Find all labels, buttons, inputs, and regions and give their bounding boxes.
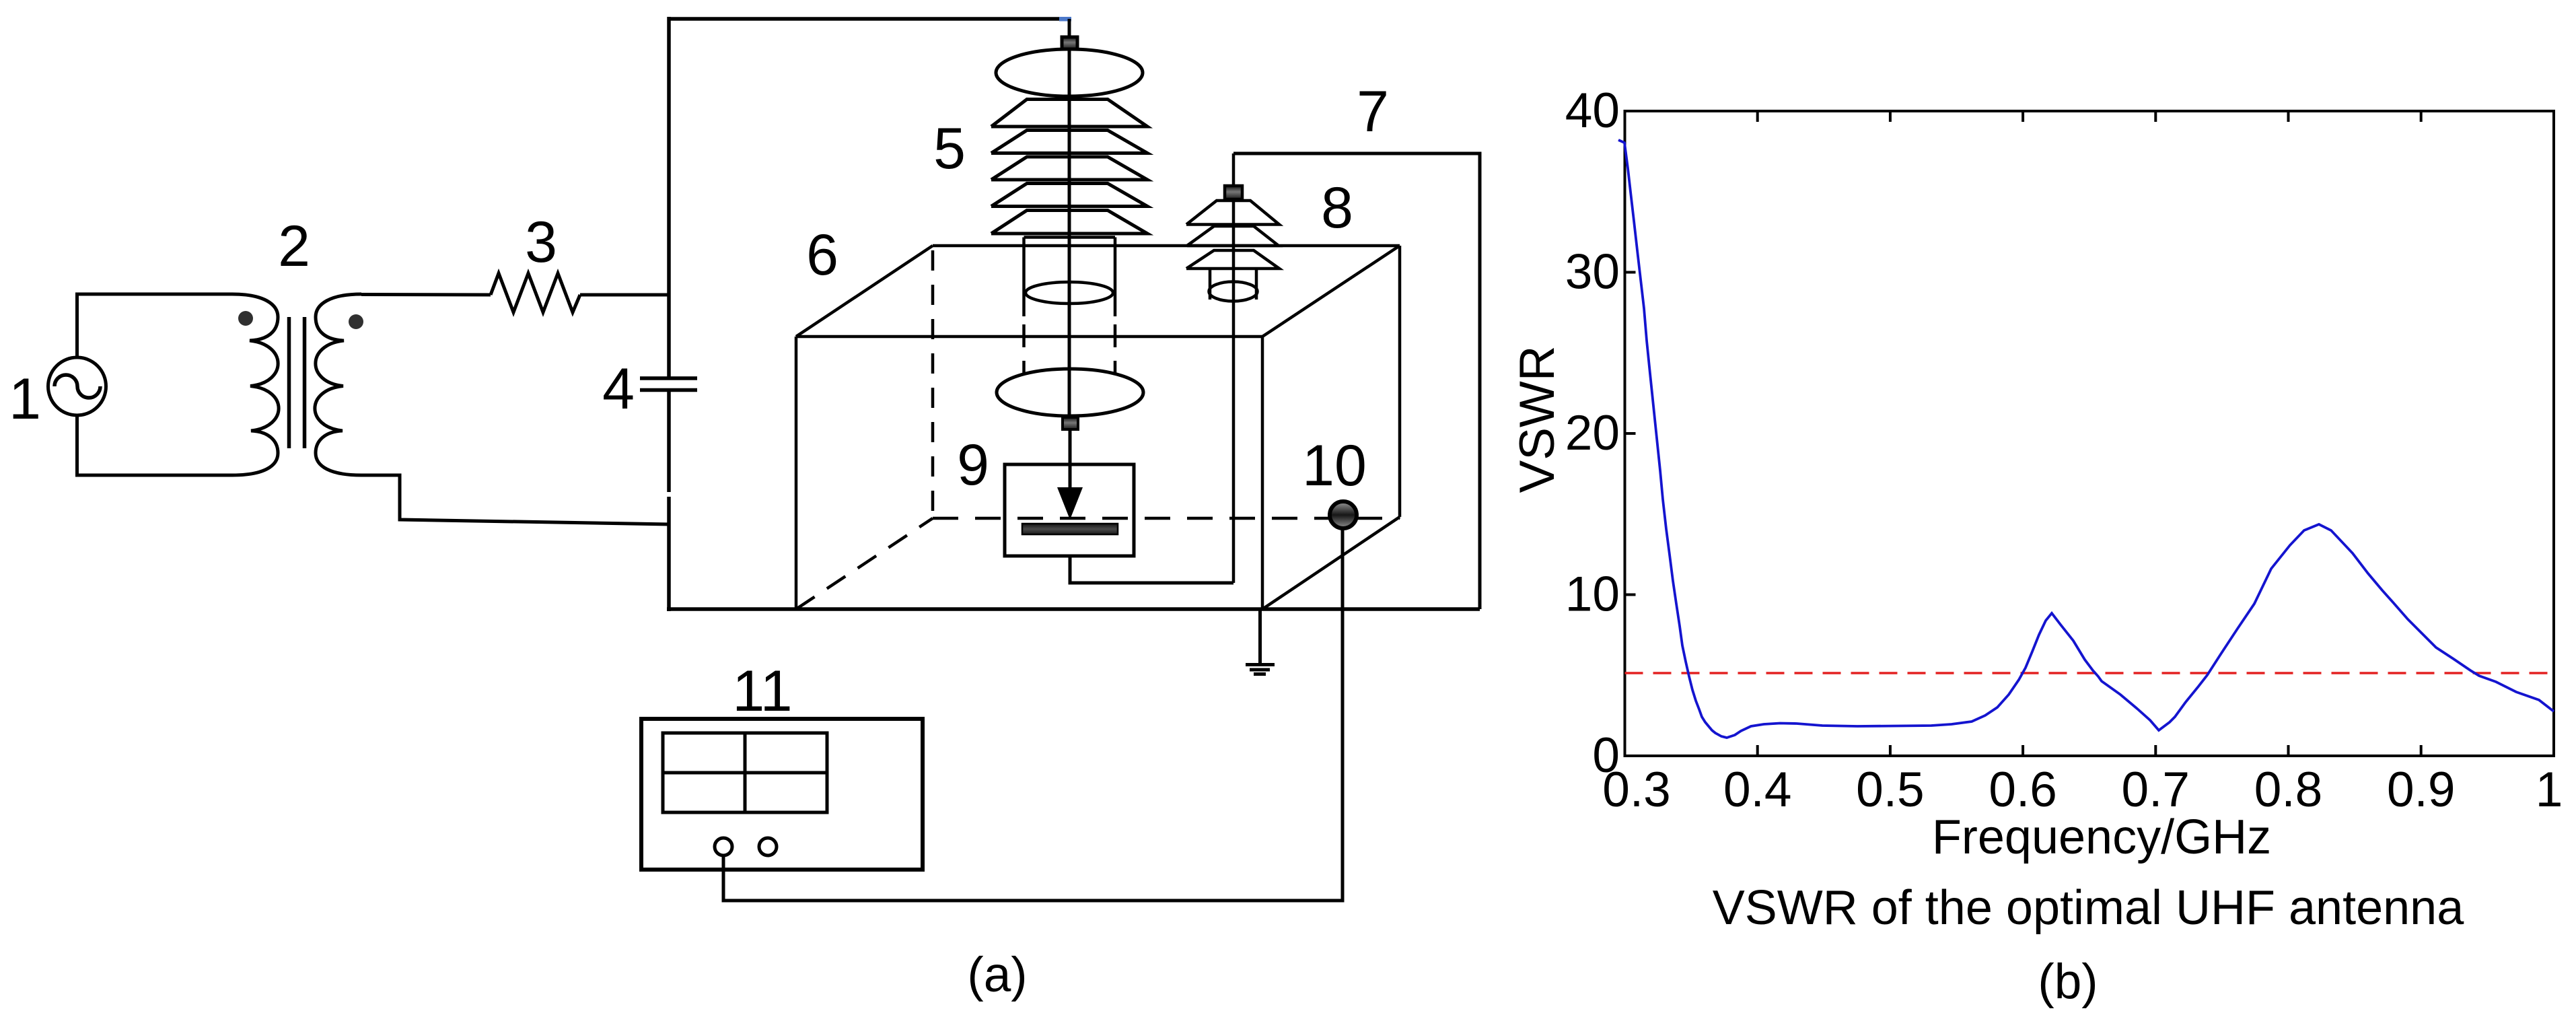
svg-text:0.4: 0.4 xyxy=(1723,763,1791,817)
capacitor 4 xyxy=(640,378,697,390)
wire loop 7 right xyxy=(1478,153,1482,609)
AC source 1 xyxy=(48,357,106,415)
node blue mark xyxy=(1059,17,1071,22)
ground xyxy=(1246,609,1275,674)
transformer T primary winding xyxy=(232,294,279,475)
electrode arrow xyxy=(1069,429,1072,490)
svg-text:4: 4 xyxy=(602,357,635,421)
svg-text:20: 20 xyxy=(1565,406,1620,460)
oscilloscope 11 xyxy=(641,719,923,870)
red threshold dashed line xyxy=(1625,672,2554,674)
svg-text:0.9: 0.9 xyxy=(2387,763,2455,817)
transformer polarity dot right xyxy=(349,314,363,329)
insulator 8 terminal xyxy=(1225,186,1242,199)
svg-text:7: 7 xyxy=(1357,79,1389,144)
svg-text:0.7: 0.7 xyxy=(2122,763,2190,817)
VSWR curve xyxy=(1618,140,2554,738)
svg-text:0.6: 0.6 xyxy=(1989,763,2056,817)
wire secondary bottom xyxy=(361,475,670,524)
transformer polarity dot left xyxy=(238,311,253,326)
svg-text:10: 10 xyxy=(1565,567,1620,622)
transformer T secondary winding xyxy=(315,294,361,475)
bushing 5 top ellipse xyxy=(996,49,1143,96)
insulator 8 skirt xyxy=(1209,269,1258,302)
svg-text:(b): (b) xyxy=(2038,954,2098,1009)
svg-text:VSWR of the optimal UHF antenn: VSWR of the optimal UHF antenna xyxy=(1713,881,2464,935)
wire secondary top to resistor xyxy=(361,293,491,297)
oscilloscope terminals xyxy=(715,838,732,855)
svg-text:30: 30 xyxy=(1565,245,1620,300)
insulator 8 sheds xyxy=(1186,201,1279,269)
svg-text:5: 5 xyxy=(933,116,966,181)
wire sample to insulator 8 xyxy=(1070,556,1233,583)
svg-text:11: 11 xyxy=(732,659,792,724)
svg-text:1: 1 xyxy=(9,367,41,431)
svg-text:Frequency/GHz: Frequency/GHz xyxy=(1932,810,2271,864)
svg-text:40: 40 xyxy=(1565,83,1620,138)
test tank 6 solid edges xyxy=(796,246,1400,609)
svg-text:10: 10 xyxy=(1302,433,1367,498)
ground plate electrode xyxy=(1022,524,1118,534)
svg-text:VSWR: VSWR xyxy=(1510,346,1565,493)
oscilloscope screen xyxy=(663,733,827,812)
bushing 5 mid ellipse xyxy=(1026,282,1113,304)
y tick labels xyxy=(1565,83,1620,783)
chart axes xyxy=(1625,111,2554,756)
svg-text:0.5: 0.5 xyxy=(1856,763,1924,817)
svg-text:3: 3 xyxy=(525,210,557,275)
svg-text:1: 1 xyxy=(2536,763,2563,817)
bushing 5 sheds xyxy=(991,100,1147,234)
sample cell 9 xyxy=(1005,464,1134,556)
UHF sensor 10 xyxy=(1330,501,1357,528)
chart ticks xyxy=(1625,111,2421,756)
wire source top xyxy=(77,294,233,357)
transformer core xyxy=(289,317,305,448)
wire loop 7 top xyxy=(1233,152,1482,155)
bushing 5 body cylinder xyxy=(1024,238,1116,374)
bushing 5 bottom terminal xyxy=(1063,417,1078,429)
bushing 5 bottom ellipse xyxy=(997,369,1143,416)
svg-text:6: 6 xyxy=(806,223,838,287)
svg-text:(a): (a) xyxy=(967,948,1027,1002)
wire bottom horizontal xyxy=(667,607,1480,611)
wire top horizontal xyxy=(669,17,1069,21)
wire source bottom xyxy=(77,415,233,475)
wire resistor to bus xyxy=(580,293,670,297)
bushing 5 top terminal xyxy=(1062,37,1077,49)
svg-text:8: 8 xyxy=(1321,176,1353,240)
svg-text:2: 2 xyxy=(278,214,310,279)
x tick labels xyxy=(1602,763,2563,817)
svg-text:9: 9 xyxy=(957,433,989,497)
test tank 6 hidden edges xyxy=(796,250,1400,609)
svg-text:0.8: 0.8 xyxy=(2254,763,2322,817)
bushing 5 stem xyxy=(1068,19,1071,417)
wire sensor to oscilloscope xyxy=(723,530,1343,901)
insulator 8 stem xyxy=(1232,153,1236,583)
bus wire left vertical xyxy=(667,17,671,611)
resistor 3 xyxy=(491,273,580,312)
svg-text:0.3: 0.3 xyxy=(1602,763,1670,817)
